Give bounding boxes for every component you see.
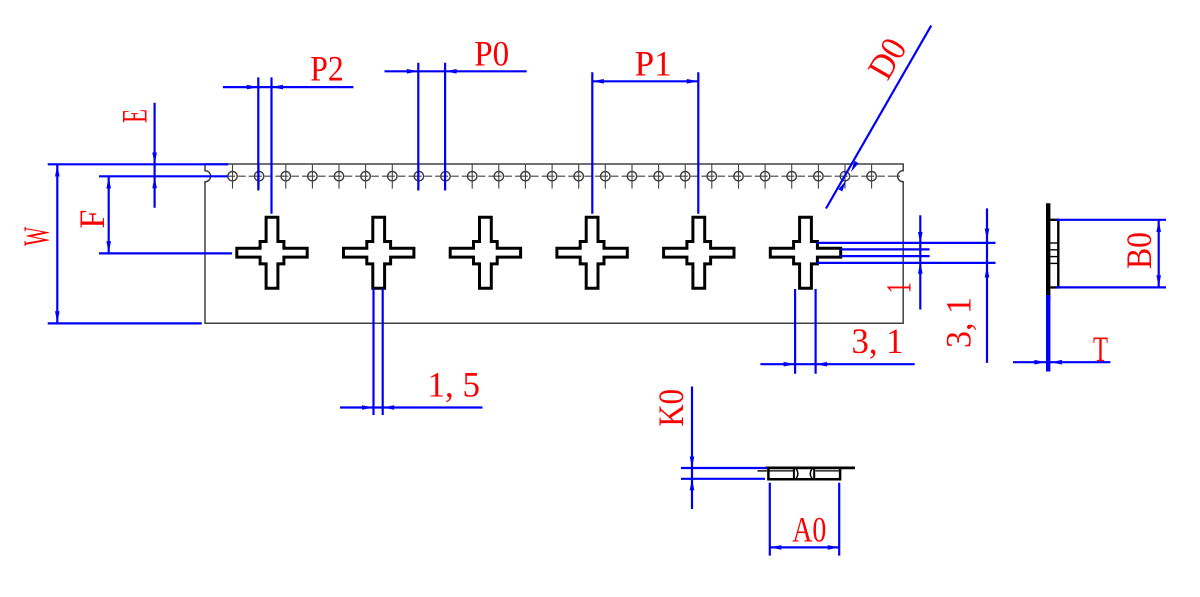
carrier tape outline with edge notches <box>205 164 903 323</box>
dimension W lines <box>48 163 229 165</box>
svg-text:B0: B0 <box>1119 232 1159 269</box>
sprocket holes row <box>228 165 877 189</box>
svg-text:1: 1 <box>879 282 919 293</box>
pocket cutout 3 <box>450 217 520 288</box>
dimension F lines <box>99 175 228 177</box>
dimension 3,1 horizontal lines <box>794 289 796 374</box>
tape side view drawing <box>1046 203 1050 299</box>
svg-text:F: F <box>72 210 112 229</box>
svg-text:1, 5: 1, 5 <box>428 365 481 405</box>
dimension D0 leader line <box>826 26 931 209</box>
dimension P1 lines <box>591 72 593 214</box>
pocket front view drawing <box>758 470 767 472</box>
pocket feature extension lines <box>817 242 996 244</box>
svg-text:3, 1: 3, 1 <box>939 297 979 348</box>
sprocket hole centerline (dashed) <box>212 175 901 177</box>
svg-text:E: E <box>114 109 154 123</box>
svg-text:P2: P2 <box>310 49 343 89</box>
pocket cutout 5 <box>664 217 734 288</box>
dimension 3,1 vertical line <box>986 208 988 363</box>
dimension K0 lines <box>681 467 767 469</box>
svg-text:P1: P1 <box>635 44 672 84</box>
svg-text:T: T <box>1093 329 1108 369</box>
pocket cutout 1 <box>237 217 307 288</box>
dimension T lines <box>1046 295 1050 372</box>
dimension B0 lines <box>1057 219 1167 221</box>
dimension A0 lines <box>769 483 771 556</box>
dimension E line <box>154 103 156 208</box>
pocket cutout 6 <box>770 217 840 288</box>
svg-text:A0: A0 <box>792 509 826 549</box>
svg-text:K0: K0 <box>651 389 691 427</box>
svg-text:W: W <box>17 227 58 246</box>
dimension P2 lines <box>257 77 259 190</box>
pocket cutout 4 <box>557 217 627 288</box>
dimension 1,5 lines <box>372 289 374 416</box>
svg-text:3, 1: 3, 1 <box>852 321 904 361</box>
dimension P0 lines <box>417 63 419 191</box>
dimension 1 line <box>919 215 921 309</box>
pocket cutout 2 <box>344 217 414 288</box>
svg-text:P0: P0 <box>474 34 509 74</box>
